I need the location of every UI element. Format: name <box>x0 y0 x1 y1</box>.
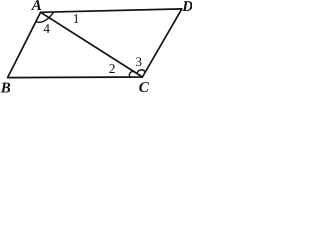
svg-text:4: 4 <box>43 21 50 36</box>
svg-text:2: 2 <box>109 61 116 76</box>
svg-text:C: C <box>139 80 150 93</box>
svg-text:A: A <box>31 0 42 14</box>
svg-text:D: D <box>181 0 192 15</box>
svg-text:3: 3 <box>136 54 143 69</box>
svg-text:B: B <box>0 80 11 93</box>
svg-text:1: 1 <box>73 11 80 26</box>
